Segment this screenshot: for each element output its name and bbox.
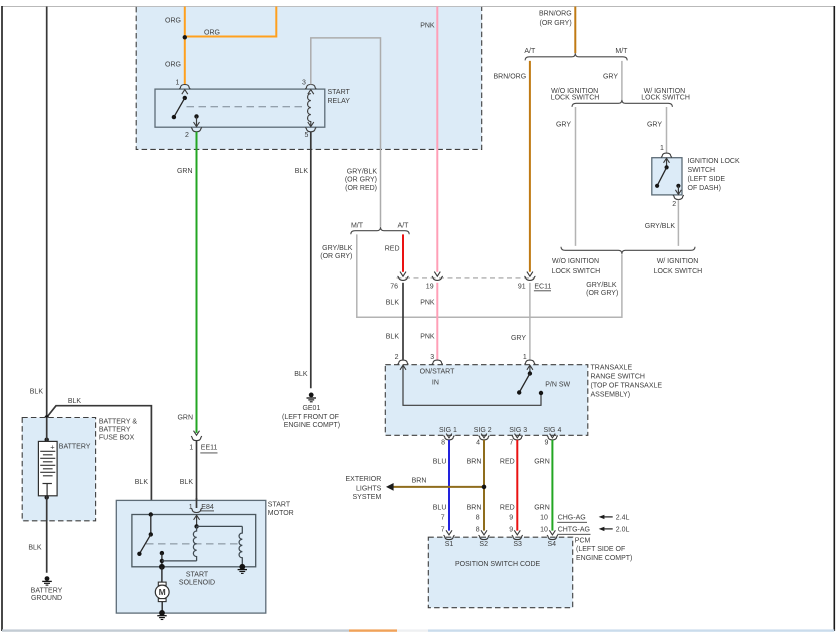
connector EC11 dashed line <box>397 277 534 279</box>
svg-text:GRY/BLK: GRY/BLK <box>586 282 617 289</box>
svg-text:W/O IGNITION: W/O IGNITION <box>552 258 599 265</box>
svg-text:9: 9 <box>544 439 548 446</box>
svg-text:(LEFT FRONT OF: (LEFT FRONT OF <box>282 414 339 421</box>
label W/ IGNITION LOCK SWITCH upper <box>641 88 690 102</box>
svg-text:S3: S3 <box>513 541 522 548</box>
junction dot motor ground <box>159 610 165 616</box>
svg-text:SYSTEM: SYSTEM <box>353 494 382 501</box>
label GRY/BLK (OR GRY) near M/T branch <box>320 245 352 260</box>
range switch pin 3 terminal <box>432 360 443 364</box>
brace ignition merge <box>561 247 695 254</box>
svg-text:4: 4 <box>476 439 480 446</box>
wire ORG branch horizontal <box>185 7 276 37</box>
svg-text:EXTERIOR: EXTERIOR <box>346 476 382 483</box>
page border top <box>2 6 834 8</box>
svg-text:GE01: GE01 <box>302 405 320 412</box>
svg-text:A/T: A/T <box>524 48 536 55</box>
relay pin 3 terminal <box>305 85 316 89</box>
motor M1 <box>155 582 169 602</box>
svg-text:(TOP OF TRANSAXLE: (TOP OF TRANSAXLE <box>591 382 663 389</box>
wire BLK branch to start motor <box>47 406 152 515</box>
svg-text:2.0L: 2.0L <box>616 526 630 533</box>
svg-text:10: 10 <box>540 514 548 521</box>
junction dot battery branch <box>45 415 49 419</box>
solenoid internal dashed link <box>146 543 238 545</box>
bottom next-section strip orange <box>349 629 397 631</box>
svg-text:LOCK SWITCH: LOCK SWITCH <box>551 95 600 102</box>
svg-text:BLK: BLK <box>386 334 400 341</box>
svg-text:GRN: GRN <box>534 504 550 511</box>
label GRY/BLK (OR GRY) (OR RED) <box>345 169 377 192</box>
wire BRN/ORG top <box>574 7 576 54</box>
svg-text:ASSEMBLY): ASSEMBLY) <box>591 391 631 398</box>
arrow 2.4L <box>599 514 630 521</box>
svg-text:2: 2 <box>185 132 189 139</box>
battery ground symbol <box>42 576 52 585</box>
range switch blade <box>517 365 533 394</box>
solenoid switch contact <box>159 551 197 570</box>
svg-text:S4: S4 <box>548 541 557 548</box>
svg-text:BLK: BLK <box>180 479 194 486</box>
ignition pin 1 terminal <box>661 153 672 157</box>
svg-text:+: + <box>50 443 55 452</box>
svg-text:TRANSAXLE: TRANSAXLE <box>591 364 633 371</box>
PCM pin S4 terminal <box>547 530 558 539</box>
svg-text:RED: RED <box>500 504 515 511</box>
page border right <box>833 6 835 631</box>
wire GRN sig4 <box>551 440 553 531</box>
svg-text:BATTERY: BATTERY <box>99 427 131 434</box>
wire PNK vertical <box>436 7 438 272</box>
page border left <box>1 6 3 631</box>
svg-text:(LEFT SIDE: (LEFT SIDE <box>688 176 726 183</box>
svg-text:M/T: M/T <box>615 48 628 55</box>
svg-text:3: 3 <box>430 354 434 361</box>
svg-text:BLK: BLK <box>386 299 400 306</box>
brace ignition lock split <box>572 100 672 107</box>
bottom next-section strip blue <box>428 629 834 631</box>
svg-text:BLK: BLK <box>135 479 149 486</box>
label W/O IGNITION LOCK SWITCH upper <box>551 88 600 102</box>
svg-text:E84: E84 <box>201 504 214 511</box>
wire GRY/BLK from ignition pin 2 <box>677 200 679 246</box>
wire BLK EE11 to E84 <box>196 441 198 508</box>
svg-text:EE11: EE11 <box>201 444 218 451</box>
svg-text:1: 1 <box>175 80 179 87</box>
svg-text:S2: S2 <box>479 541 488 548</box>
wire GRY/BLK loop from relay pin 3 <box>311 38 381 227</box>
wire GRY to ignition lock switch <box>666 107 668 153</box>
svg-text:OF DASH): OF DASH) <box>688 185 721 192</box>
svg-text:BATTERY: BATTERY <box>59 443 91 450</box>
label CHG-AG <box>557 514 587 522</box>
label BRN/ORG (OR GRY) top <box>539 10 572 27</box>
wire GRN relay to EE11 <box>196 132 198 433</box>
svg-text:S1: S1 <box>445 541 454 548</box>
ignition pin 2 terminal <box>673 195 684 199</box>
svg-text:BATTERY &: BATTERY & <box>99 419 137 426</box>
ground GE01 symbol <box>307 393 317 402</box>
svg-text:BRN: BRN <box>467 459 482 466</box>
svg-text:RANGE SWITCH: RANGE SWITCH <box>591 373 645 380</box>
PCM box <box>428 537 572 608</box>
wire to motor <box>161 567 163 582</box>
svg-text:GRN: GRN <box>177 168 193 175</box>
wire BRN to exterior lights <box>393 486 484 488</box>
junction dot battery bottom <box>45 495 49 499</box>
solenoid hold-in coil L2 <box>239 526 242 566</box>
svg-text:BRN: BRN <box>467 504 482 511</box>
svg-text:1: 1 <box>660 145 664 152</box>
svg-text:CHG-AG: CHG-AG <box>558 514 586 521</box>
label W/O IGNITION LOCK SWITCH lower <box>552 258 601 275</box>
label BATTERY & BATTERY FUSE BOX <box>99 419 137 442</box>
svg-text:8: 8 <box>476 526 480 533</box>
svg-text:LOCK SWITCH: LOCK SWITCH <box>654 268 703 275</box>
svg-text:2.4L: 2.4L <box>616 514 630 521</box>
svg-text:BRN/ORG: BRN/ORG <box>494 74 527 81</box>
junction dot hold-in coil ground <box>239 564 245 570</box>
svg-text:ON/START: ON/START <box>420 369 455 376</box>
wire PNK below pin 19 <box>436 283 438 360</box>
connector E84 terminal <box>191 508 202 512</box>
svg-text:GRN: GRN <box>177 414 193 421</box>
label 1 E84 <box>189 504 214 511</box>
svg-text:START: START <box>186 572 209 579</box>
solenoid coil bridge wire <box>197 525 243 527</box>
dashed box battery and battery fuse box <box>22 418 95 521</box>
svg-text:GROUND: GROUND <box>31 595 62 602</box>
svg-text:GRY: GRY <box>647 122 662 129</box>
connector EE11 terminal <box>191 431 202 441</box>
label CHTG-AG <box>557 526 590 534</box>
junction dot battery top <box>45 438 49 442</box>
svg-text:GRN: GRN <box>534 459 550 466</box>
PCM pin S2 terminal <box>479 530 490 539</box>
label ON/START IN <box>420 369 455 387</box>
ignition pin 2 contact <box>675 184 681 195</box>
ignition switch blade <box>655 158 670 188</box>
svg-text:7: 7 <box>509 439 513 446</box>
bottom next-section strip gray <box>2 629 349 631</box>
EC11 pin 91 terminal <box>524 272 535 281</box>
svg-text:BLK: BLK <box>30 389 44 396</box>
svg-text:ORG: ORG <box>165 62 181 69</box>
wire motor to ground <box>161 602 163 613</box>
svg-text:P/N SW: P/N SW <box>545 382 570 389</box>
wire BRN/ORG A/T branch <box>529 61 531 272</box>
svg-text:PCM: PCM <box>575 538 591 545</box>
relay pin 5 terminal <box>305 128 316 132</box>
ignition lock switch box S1 <box>652 158 682 195</box>
svg-text:2: 2 <box>672 201 676 208</box>
range switch pin 2 terminal <box>398 360 409 364</box>
svg-text:(OR GRY): (OR GRY) <box>540 20 572 27</box>
svg-text:1: 1 <box>523 354 527 361</box>
start relay box U1 <box>155 89 325 127</box>
label GRY/BLK (OR GRY) right loop <box>586 282 618 297</box>
range switch pin SIG2 terminal <box>479 434 490 440</box>
solenoid coil feed arrow <box>194 515 200 528</box>
label TRANSAXLE RANGE SWITCH <box>591 364 663 398</box>
svg-text:START: START <box>328 89 351 96</box>
svg-text:8: 8 <box>441 439 445 446</box>
wire BLK relay to GE01 ground <box>310 132 312 389</box>
junction dot ORG <box>183 35 187 39</box>
wire GRY M/T branch <box>621 61 623 100</box>
relay pin 1 terminal <box>179 85 190 95</box>
svg-text:BLU: BLU <box>433 459 447 466</box>
wire BLK battery feed vertical <box>46 7 48 442</box>
svg-text:W/ IGNITION: W/ IGNITION <box>657 258 699 265</box>
svg-text:1: 1 <box>189 504 193 511</box>
svg-text:GRY/BLK: GRY/BLK <box>645 223 676 230</box>
svg-text:SIG 2: SIG 2 <box>474 427 492 434</box>
wire BLU sig1 <box>448 440 450 531</box>
wire BLK into start motor <box>196 498 198 508</box>
battery B1 <box>38 418 57 496</box>
svg-text:5: 5 <box>304 132 308 139</box>
svg-text:BLK: BLK <box>28 545 42 552</box>
svg-text:IN: IN <box>432 379 439 386</box>
wire ORG vertical to relay pin 1 <box>184 7 186 86</box>
label START RELAY <box>328 89 351 105</box>
svg-text:FUSE BOX: FUSE BOX <box>99 435 135 442</box>
svg-text:GRY/BLK: GRY/BLK <box>347 169 378 176</box>
wire RED A/T branch <box>402 234 404 271</box>
arrowhead exterior lights <box>386 483 394 491</box>
svg-text:9: 9 <box>509 526 513 533</box>
wire GRY below pin 91 <box>529 283 531 360</box>
svg-text:PNK: PNK <box>420 334 435 341</box>
svg-text:IGNITION LOCK: IGNITION LOCK <box>688 158 740 165</box>
svg-text:LIGHTS: LIGHTS <box>356 485 382 492</box>
svg-text:2: 2 <box>395 354 399 361</box>
svg-text:7: 7 <box>441 526 445 533</box>
svg-text:PNK: PNK <box>420 299 435 306</box>
junction dot BRN <box>482 485 487 490</box>
svg-text:SOLENOID: SOLENOID <box>179 579 215 586</box>
transaxle range switch box S2 <box>385 365 588 436</box>
svg-text:M/T: M/T <box>351 222 364 229</box>
svg-text:SWITCH: SWITCH <box>688 167 716 174</box>
relay coil <box>308 90 314 127</box>
bottom next-section strip white <box>397 629 428 631</box>
label GE01 (LEFT FRONT OF ENGINE COMPT) <box>282 405 340 429</box>
svg-text:BRN/ORG: BRN/ORG <box>539 10 572 17</box>
svg-text:BLK: BLK <box>68 398 82 405</box>
wire RED sig3 <box>516 440 518 531</box>
svg-text:RED: RED <box>500 459 515 466</box>
label PCM (LEFT SIDE OF ENGINE COMPT) <box>575 538 633 562</box>
svg-text:10: 10 <box>540 526 548 533</box>
svg-text:ENGINE COMPT): ENGINE COMPT) <box>576 555 632 562</box>
svg-text:SIG 3: SIG 3 <box>509 427 527 434</box>
wire BRN sig2 <box>483 440 485 531</box>
svg-text:19: 19 <box>426 283 434 290</box>
range switch pin SIG3 terminal <box>512 434 523 440</box>
brace A/T M/T split top <box>525 53 627 60</box>
svg-text:BLU: BLU <box>433 504 447 511</box>
range switch pin 1 terminal <box>524 360 535 364</box>
svg-text:BRN: BRN <box>412 477 427 484</box>
label 1 EE11 <box>189 444 217 453</box>
svg-text:POSITION SWITCH CODE: POSITION SWITCH CODE <box>455 561 541 568</box>
svg-text:SIG 4: SIG 4 <box>543 427 561 434</box>
svg-text:LOCK SWITCH: LOCK SWITCH <box>641 95 690 102</box>
wire GRY w/o ignition branch <box>575 107 577 246</box>
range switch ON/START IN link <box>400 365 543 405</box>
svg-text:ORG: ORG <box>204 30 220 37</box>
PCM pin S3 terminal <box>512 530 523 539</box>
svg-text:SIG 1: SIG 1 <box>439 427 457 434</box>
svg-text:(OR RED): (OR RED) <box>345 185 377 192</box>
label IGNITION LOCK SWITCH (LEFT SIDE OF DASH) <box>688 158 740 192</box>
wire BLK below pin 76 <box>402 283 404 360</box>
svg-text:A/T: A/T <box>398 222 410 229</box>
label BATTERY GROUND <box>31 587 63 602</box>
ground symbol motor <box>157 616 166 620</box>
range switch pin SIG1 terminal <box>444 434 455 440</box>
svg-text:BATTERY: BATTERY <box>31 587 63 594</box>
start motor outer box <box>116 500 265 613</box>
svg-text:7: 7 <box>441 514 445 521</box>
brace M/T A/T split mid-left <box>351 227 409 234</box>
solenoid pull-in coil L1 <box>193 526 196 561</box>
svg-text:1: 1 <box>189 444 193 451</box>
PCM pin S1 terminal <box>444 530 455 539</box>
label EC11 <box>534 283 552 291</box>
svg-text:8: 8 <box>476 514 480 521</box>
svg-text:(OR GRY): (OR GRY) <box>345 177 377 184</box>
svg-text:(LEFT SIDE OF: (LEFT SIDE OF <box>576 546 625 553</box>
arrow 2.0L <box>599 526 630 533</box>
ground symbol hold-in coil <box>238 570 247 574</box>
svg-text:ENGINE COMPT): ENGINE COMPT) <box>284 422 340 429</box>
svg-text:RED: RED <box>385 245 400 252</box>
svg-text:PNK: PNK <box>420 23 435 30</box>
svg-text:GRY: GRY <box>511 335 526 342</box>
svg-text:M: M <box>159 587 166 597</box>
svg-text:MOTOR: MOTOR <box>268 510 294 517</box>
svg-text:ORG: ORG <box>165 18 181 25</box>
svg-text:91: 91 <box>518 283 526 290</box>
EC11 pin 19 terminal <box>432 272 443 281</box>
svg-text:GRY: GRY <box>556 122 571 129</box>
relay internal dashed link <box>187 106 307 108</box>
solenoid switch blade <box>137 512 153 556</box>
wire BLK battery to ground <box>46 496 48 573</box>
svg-text:START: START <box>268 501 291 508</box>
svg-text:CHTG-AG: CHTG-AG <box>558 526 590 533</box>
relay pin 2 terminal <box>191 128 202 132</box>
svg-text:LOCK SWITCH: LOCK SWITCH <box>552 268 601 275</box>
relay pin 2 contact <box>194 114 200 126</box>
svg-text:9: 9 <box>509 514 513 521</box>
svg-text:76: 76 <box>390 283 398 290</box>
range switch pin SIG4 terminal <box>547 434 558 440</box>
svg-text:GRY/BLK: GRY/BLK <box>322 245 353 252</box>
relay switch blade <box>172 96 187 120</box>
svg-text:GRY: GRY <box>603 74 618 81</box>
svg-text:3: 3 <box>302 80 306 87</box>
svg-text:RELAY: RELAY <box>328 98 351 105</box>
dashed box start relay compartment <box>136 7 482 150</box>
label W/ IGNITION LOCK SWITCH lower <box>654 258 703 275</box>
start solenoid inner box <box>132 515 256 567</box>
svg-text:(OR GRY): (OR GRY) <box>320 253 352 260</box>
label START MOTOR <box>268 501 294 517</box>
EC11 pin 76 terminal <box>398 272 409 281</box>
svg-text:BLK: BLK <box>295 168 309 175</box>
svg-text:BLK: BLK <box>294 371 308 378</box>
svg-text:(OR GRY): (OR GRY) <box>586 290 618 297</box>
wire GRY/BLK M/T loop down right up <box>357 234 622 317</box>
label EXTERIOR LIGHTS SYSTEM <box>346 476 382 501</box>
label START SOLENOID <box>179 572 215 587</box>
svg-text:EC11: EC11 <box>534 283 551 290</box>
